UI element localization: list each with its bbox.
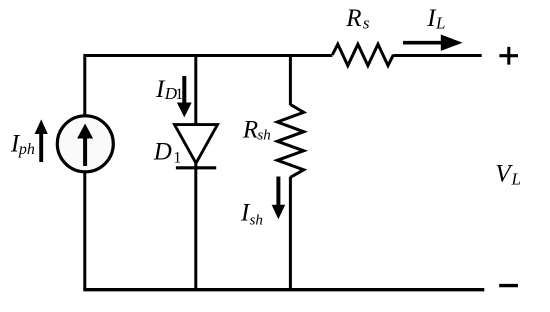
wire diode branch lower — [194, 162, 197, 290]
label D1 — [153, 139, 182, 167]
svg-text:s: s — [363, 13, 370, 32]
svg-text:ph: ph — [18, 141, 35, 158]
label VL — [495, 160, 521, 188]
wire left vertical — [83, 54, 86, 290]
wire diode branch upper — [194, 54, 197, 125]
label Rs — [345, 5, 370, 33]
svg-text:L: L — [435, 13, 445, 32]
wire bottom horizontal — [83, 288, 484, 291]
svg-text:1: 1 — [175, 86, 183, 103]
arrow IL — [403, 35, 463, 51]
diode D1 — [175, 125, 218, 168]
wire shunt branch lower — [289, 177, 292, 290]
resistor Rsh (zigzag) — [277, 105, 303, 178]
svg-text:sh: sh — [257, 128, 270, 144]
wire top-left horizontal — [85, 54, 333, 57]
resistor Rs (zigzag) — [332, 44, 393, 65]
svg-text:R: R — [345, 5, 361, 32]
wire top-right horizontal — [393, 54, 481, 57]
label Rsh — [242, 116, 271, 143]
wire shunt branch upper — [289, 54, 292, 105]
svg-text:D: D — [153, 139, 172, 166]
svg-text:R: R — [242, 116, 258, 143]
arrow Ish — [272, 177, 286, 220]
arrow Iph (left of source) — [35, 119, 48, 162]
label IL — [426, 5, 445, 32]
arrow ID1 — [177, 76, 192, 117]
label ID1 — [155, 76, 183, 103]
svg-text:1: 1 — [173, 150, 181, 167]
svg-text:L: L — [511, 170, 521, 189]
terminal plus — [499, 47, 518, 65]
label Iph — [10, 131, 35, 158]
svg-text:sh: sh — [250, 212, 263, 228]
terminal minus — [499, 284, 518, 287]
current source Iph (circle) — [57, 116, 113, 172]
label Ish — [240, 200, 263, 229]
